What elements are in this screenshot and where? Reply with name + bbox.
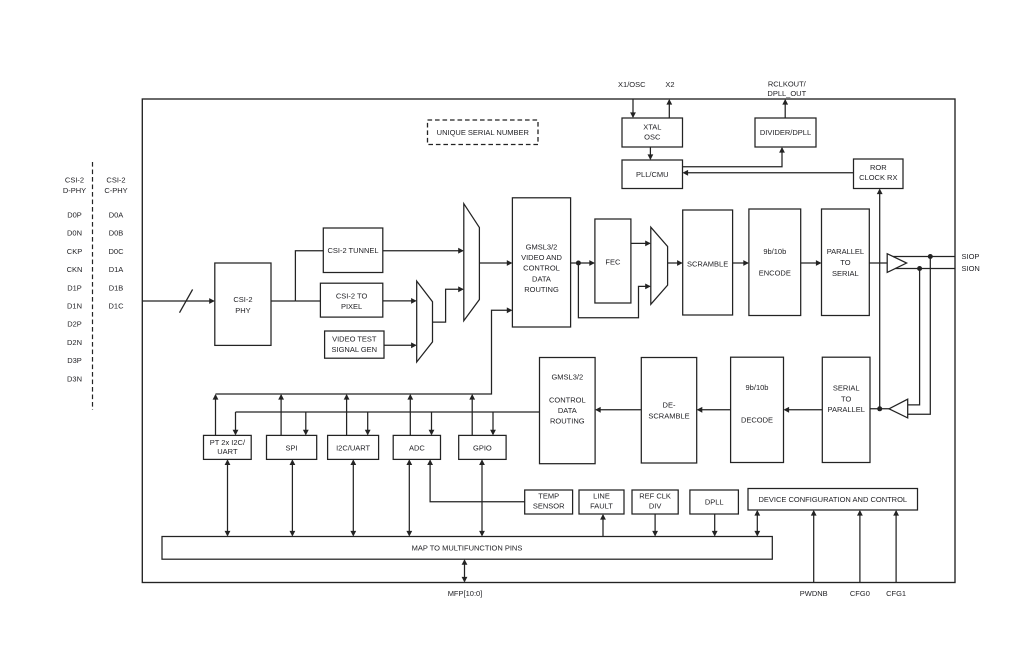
wire output mux to SCRAMBLE: [668, 262, 682, 264]
svg-text:VIDEO AND: VIDEO AND: [521, 253, 562, 262]
svg-text:SCRAMBLE: SCRAMBLE: [648, 411, 689, 420]
wire DE-SCRAMBLE to GMSL3/2 control routing: [596, 409, 641, 411]
wire FEC bypass to output mux: [578, 263, 649, 318]
mux pixel/test-pattern select: [417, 281, 433, 362]
svg-text:SERIAL: SERIAL: [832, 269, 859, 278]
svg-text:D1C: D1C: [108, 302, 124, 311]
wire device configuration to pin map: [756, 511, 758, 536]
wire pin map to MFP pins: [464, 560, 466, 581]
wire CFG0 input: [859, 511, 861, 583]
block CSI-2 PHY: [215, 263, 271, 345]
svg-text:D-PHY: D-PHY: [63, 186, 86, 195]
wire I2C/UART up to peripheral bus: [346, 395, 348, 435]
block LINE FAULT: [579, 490, 624, 514]
svg-text:CSI-2: CSI-2: [106, 176, 125, 185]
svg-text:D3N: D3N: [67, 374, 82, 383]
block PT 2x I2C/UART: [204, 435, 252, 459]
svg-text:PLL/CMU: PLL/CMU: [636, 170, 669, 179]
block VIDEO TEST SIGNAL GEN: [325, 331, 384, 358]
svg-text:LINE: LINE: [593, 492, 610, 501]
svg-text:SPI: SPI: [286, 443, 298, 452]
block ROR CLOCK RX: [854, 159, 904, 189]
wire PLL/CMU to DIVIDER/DPLL: [683, 148, 783, 167]
svg-text:9b/10b: 9b/10b: [763, 247, 786, 256]
bus-width slash mark: [180, 289, 193, 312]
block GPIO: [459, 435, 506, 459]
svg-text:ROUTING: ROUTING: [550, 417, 585, 426]
svg-text:CFG1: CFG1: [886, 589, 906, 598]
svg-text:VIDEO TEST: VIDEO TEST: [332, 334, 377, 343]
svg-text:CSI-2 TUNNEL: CSI-2 TUNNEL: [327, 246, 378, 255]
svg-text:X2: X2: [665, 80, 674, 89]
wire GPIO to multifunction pin map: [481, 460, 483, 535]
wire peripheral bus down into PT 2x I2C/UART: [235, 412, 237, 434]
svg-text:MFP[10:0]: MFP[10:0]: [448, 589, 483, 598]
wire peripheral bus up to video routing: [216, 310, 512, 394]
svg-text:SION: SION: [962, 264, 980, 273]
svg-text:9b/10b: 9b/10b: [746, 383, 769, 392]
svg-text:DE-: DE-: [663, 401, 676, 410]
wire SION output line: [895, 268, 955, 270]
svg-text:GPIO: GPIO: [473, 443, 492, 452]
block SERIAL TO PARALLEL: [822, 357, 870, 462]
block MAP TO MULTIFUNCTION PINS: [162, 537, 772, 560]
line driver buffer: [887, 254, 906, 273]
svg-text:ROR: ROR: [870, 163, 887, 172]
junction dot receiver input: [877, 406, 882, 411]
svg-text:ENCODE: ENCODE: [759, 269, 791, 278]
block TEMP SENSOR: [525, 490, 573, 514]
svg-text:DPLL: DPLL: [705, 498, 724, 507]
wire line receiver to SERIAL TO PARALLEL: [870, 408, 889, 410]
block PLL/CMU: [622, 160, 683, 189]
svg-text:X1/OSC: X1/OSC: [618, 80, 646, 89]
svg-text:OSC: OSC: [644, 132, 661, 141]
wire SERIAL TO PARALLEL to 9b/10b DECODE: [785, 409, 823, 411]
svg-text:SIOP: SIOP: [962, 252, 980, 261]
wire DECODE to DE-SCRAMBLE: [698, 409, 731, 411]
svg-text:REF CLK: REF CLK: [639, 492, 671, 501]
svg-text:GMSL3/2: GMSL3/2: [551, 373, 583, 382]
block DE-SCRAMBLE: [641, 358, 696, 464]
wire CSI-2 TO PIXEL to pixel mux: [383, 300, 416, 302]
wire CSI-2 input bus into CSI-2 PHY: [142, 300, 214, 302]
svg-text:PHY: PHY: [235, 306, 250, 315]
block DIVIDER/DPLL: [755, 118, 816, 147]
svg-text:D0A: D0A: [109, 211, 124, 220]
svg-text:FAULT: FAULT: [590, 502, 613, 511]
block GMSL3/2 CONTROL DATA ROUTING: [540, 358, 596, 464]
svg-text:RCLKOUT/: RCLKOUT/: [768, 80, 807, 89]
svg-text:TEMP: TEMP: [538, 492, 559, 501]
block GMSL3/2 VIDEO AND CONTROL DATA ROUTING: [512, 198, 570, 327]
svg-text:CSI-2: CSI-2: [233, 295, 252, 304]
wire CFG1 input: [895, 511, 897, 583]
svg-text:I2C/UART: I2C/UART: [336, 443, 370, 452]
svg-text:CONTROL: CONTROL: [549, 395, 586, 404]
svg-text:UART: UART: [217, 447, 238, 456]
wire VIDEO TEST SIGNAL GEN to pixel mux: [384, 344, 416, 346]
block DPLL: [690, 490, 739, 514]
svg-text:TO: TO: [840, 258, 850, 267]
wire branch up to CSI-2 TUNNEL: [295, 251, 323, 301]
wire serializer output to line driver: [869, 262, 887, 264]
wire FEC output to output mux: [631, 242, 650, 244]
wire ROR CLOCK RX to PLL/CMU: [684, 172, 854, 174]
wire ADC to multifunction pin map: [408, 460, 410, 535]
wire peripheral bus down into ADC: [431, 412, 433, 434]
svg-text:D1B: D1B: [109, 283, 124, 292]
wire SIOP output line: [893, 256, 955, 258]
svg-text:CFG0: CFG0: [850, 589, 870, 598]
svg-text:GMSL3/2: GMSL3/2: [526, 242, 558, 251]
svg-text:PT 2x I2C/: PT 2x I2C/: [210, 438, 246, 447]
wire peripheral bus from control routing: [236, 411, 540, 413]
wire TEMP SENSOR to ADC: [430, 460, 525, 501]
svg-text:D0P: D0P: [67, 211, 82, 220]
svg-text:CONTROL: CONTROL: [523, 264, 560, 273]
mux FEC/bypass select: [651, 227, 668, 304]
dashed block UNIQUE SERIAL NUMBER: [428, 120, 539, 145]
line receiver buffer: [889, 399, 908, 418]
svg-text:MAP TO MULTIFUNCTION PINS: MAP TO MULTIFUNCTION PINS: [412, 544, 523, 553]
svg-text:DEVICE CONFIGURATION AND CONTR: DEVICE CONFIGURATION AND CONTROL: [758, 495, 907, 504]
wire PT 2x I2C/UART to multifunction pin map: [227, 460, 229, 535]
block CSI-2 TO PIXEL: [320, 283, 382, 317]
wire DIVIDER/DPLL to RCLKOUT pin: [784, 100, 786, 118]
svg-text:CSI-2: CSI-2: [65, 176, 84, 185]
block CSI-2 TUNNEL: [323, 228, 383, 273]
block I2C/UART: [328, 435, 379, 459]
svg-text:CSI-2 TO: CSI-2 TO: [336, 291, 368, 300]
svg-text:PARALLEL: PARALLEL: [827, 247, 864, 256]
svg-text:DECODE: DECODE: [741, 416, 773, 425]
svg-text:DATA: DATA: [532, 274, 551, 283]
svg-text:FEC: FEC: [605, 258, 621, 267]
svg-text:SCRAMBLE: SCRAMBLE: [687, 259, 728, 268]
svg-text:CLOCK RX: CLOCK RX: [859, 173, 897, 182]
wire serial line tap up to ROR CLOCK RX: [879, 190, 881, 409]
wire ADC up to peripheral bus: [409, 395, 411, 435]
svg-text:D3P: D3P: [67, 356, 82, 365]
wire XTAL OSC to PLL/CMU: [649, 147, 651, 159]
wire pixel mux output to video mux: [433, 289, 463, 322]
svg-text:PWDNB: PWDNB: [800, 589, 828, 598]
wire video mux output to GMSL3/2 video routing: [479, 262, 511, 264]
block PARALLEL TO SERIAL: [822, 209, 870, 316]
block DEVICE CONFIGURATION AND CONTROL: [748, 489, 918, 511]
junction dot on SIOP line: [928, 254, 933, 259]
wire peripheral bus down into GPIO: [492, 412, 494, 434]
svg-text:XTAL: XTAL: [643, 123, 661, 132]
block XTAL OSC: [622, 118, 683, 147]
wire pin map up to LINE FAULT: [602, 515, 604, 537]
svg-text:C-PHY: C-PHY: [104, 186, 127, 195]
wire SIOP tap down to line receiver: [908, 257, 931, 415]
wire video routing output to FEC: [571, 262, 594, 264]
wire CSI-2 TUNNEL to video mux: [383, 250, 463, 252]
wire DPLL down to pin map: [714, 514, 716, 536]
svg-text:DIVIDER/DPLL: DIVIDER/DPLL: [760, 128, 811, 137]
svg-text:D0N: D0N: [67, 229, 82, 238]
svg-text:TO: TO: [841, 394, 851, 403]
block ADC: [393, 435, 440, 459]
junction dot on SION line: [917, 266, 922, 271]
wire SCRAMBLE to 9b/10b ENCODE: [733, 262, 748, 264]
wire I2C/UART to multifunction pin map: [352, 460, 354, 535]
wire peripheral bus down into SPI: [305, 412, 307, 434]
svg-text:DPLL_OUT: DPLL_OUT: [767, 89, 806, 98]
wire peripheral bus down into I2C/UART: [367, 412, 369, 434]
svg-text:D1N: D1N: [67, 302, 82, 311]
chip outer boundary: [142, 99, 955, 583]
svg-text:ROUTING: ROUTING: [524, 285, 559, 294]
wire XTAL OSC out to X2: [668, 100, 670, 118]
block FEC: [595, 219, 631, 303]
svg-text:PARALLEL: PARALLEL: [828, 405, 865, 414]
block 9b/10b ENCODE: [749, 209, 801, 316]
wire CSI-2 PHY output: [271, 300, 295, 302]
svg-text:SENSOR: SENSOR: [533, 502, 565, 511]
junction dot FEC input tap: [576, 261, 581, 266]
wire into CSI-2 TO PIXEL: [295, 300, 320, 302]
wire GPIO up to peripheral bus: [471, 395, 473, 435]
block SCRAMBLE: [683, 210, 733, 315]
svg-text:SERIAL: SERIAL: [833, 384, 860, 393]
wire SPI to multifunction pin map: [291, 460, 293, 535]
svg-text:D1A: D1A: [109, 265, 124, 274]
svg-text:D0C: D0C: [108, 247, 124, 256]
svg-text:SIGNAL GEN: SIGNAL GEN: [332, 345, 378, 354]
block 9b/10b DECODE: [731, 357, 784, 462]
svg-text:UNIQUE SERIAL NUMBER: UNIQUE SERIAL NUMBER: [437, 128, 530, 137]
block SPI: [267, 435, 317, 459]
svg-text:CKN: CKN: [67, 265, 83, 274]
svg-text:D2N: D2N: [67, 338, 82, 347]
svg-text:PIXEL: PIXEL: [341, 302, 362, 311]
wire PWDNB input: [813, 511, 815, 583]
svg-text:DIV: DIV: [649, 502, 662, 511]
svg-text:ADC: ADC: [409, 443, 425, 452]
wire SION tap down to line receiver: [908, 269, 920, 405]
svg-text:DATA: DATA: [558, 406, 577, 415]
svg-text:D2P: D2P: [67, 320, 82, 329]
wire X1/OSC into XTAL OSC: [632, 99, 634, 117]
dashed separator between D-PHY and C-PHY pin columns: [92, 162, 94, 410]
wire REF CLK DIV down to pin map: [654, 514, 656, 536]
wire PT 2x I2C/UART up to peripheral bus: [215, 395, 217, 435]
wire ENCODE to PARALLEL TO SERIAL: [801, 262, 821, 264]
svg-text:D1P: D1P: [67, 283, 82, 292]
mux tunnel/pixel select: [464, 204, 480, 321]
svg-text:D0B: D0B: [109, 229, 124, 238]
block REF CLK DIV: [632, 490, 678, 514]
svg-text:CKP: CKP: [67, 247, 82, 256]
wire SPI up to peripheral bus: [280, 395, 282, 435]
